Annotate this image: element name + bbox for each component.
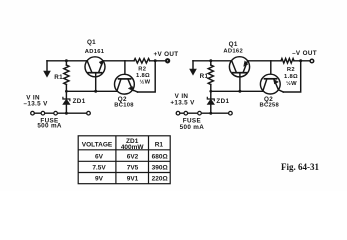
svg-text:9V: 9V	[95, 175, 104, 182]
zener diode ZD1 (left)	[63, 97, 70, 113]
node junction R1 top (right)	[209, 59, 212, 62]
transistor Q1 (right, AD162)	[229, 57, 249, 77]
terminal bottom rail end (left)	[87, 111, 91, 115]
node junction R1 top (left)	[65, 59, 68, 62]
svg-text:6V: 6V	[95, 153, 104, 160]
wire bottom rail right circuit	[180, 112, 229, 114]
svg-text:1.8Ω: 1.8Ω	[136, 73, 150, 79]
svg-text:½W: ½W	[286, 80, 297, 87]
svg-text:Q1: Q1	[87, 39, 96, 46]
wire Q2 base lead (left)	[124, 61, 126, 75]
wire mid rail left circuit	[66, 90, 118, 92]
svg-text:1.8Ω: 1.8Ω	[284, 74, 298, 80]
terminal -V OUT	[310, 59, 314, 63]
node junction +V OUT branch (left)	[154, 59, 157, 62]
wire R1 bottom to zener (right)	[210, 85, 212, 99]
svg-text:ZD1: ZD1	[73, 98, 86, 105]
svg-text:BC108: BC108	[114, 103, 134, 109]
terminal V IN (left)	[31, 111, 35, 115]
resistor R1 (left)	[64, 65, 69, 85]
wire bottom rail left circuit	[34, 112, 87, 114]
svg-text:390Ω: 390Ω	[152, 164, 168, 171]
wire top rail left circuit (segment right of R2)	[150, 60, 166, 62]
svg-text:–V OUT: –V OUT	[292, 50, 317, 57]
svg-text:AD161: AD161	[85, 49, 105, 55]
table of values (VOLTAGE / ZD1 400mW / R1)	[78, 136, 170, 184]
wire top rail left circuit (segment left of R2)	[47, 60, 134, 62]
wire Q1 base lead (left)	[95, 73, 97, 92]
svg-text:9V1: 9V1	[127, 175, 139, 182]
svg-text:7.5V: 7.5V	[92, 164, 106, 171]
svg-text:VOLTAGE: VOLTAGE	[82, 141, 113, 148]
svg-text:R1: R1	[200, 73, 209, 80]
svg-text:R1: R1	[54, 74, 63, 81]
svg-text:6V2: 6V2	[127, 153, 139, 160]
svg-text:500 mA: 500 mA	[37, 122, 62, 129]
zener diode ZD1 (right)	[207, 97, 214, 113]
ground (left, arrow)	[44, 71, 51, 77]
node junction ZD1 bottom rail (left)	[65, 112, 68, 115]
terminal V IN (right)	[176, 111, 180, 115]
ground (right, arrow)	[190, 69, 197, 75]
resistor R2 (right)	[281, 59, 294, 64]
wire top rail right circuit (segment right of R2)	[294, 60, 310, 62]
svg-text:ZD1: ZD1	[216, 98, 229, 105]
svg-text:500 mA: 500 mA	[180, 124, 205, 131]
svg-text:680Ω: 680Ω	[152, 153, 168, 160]
node junction R1/ZD1 mid (left)	[65, 90, 68, 93]
svg-text:+13.5 V: +13.5 V	[170, 100, 195, 107]
svg-text:7V5: 7V5	[127, 164, 139, 171]
wire R1 bottom to zener (left)	[65, 85, 67, 99]
svg-text:Q1: Q1	[229, 41, 238, 48]
node junction -V OUT branch (right)	[299, 59, 302, 62]
svg-text:R2: R2	[287, 67, 295, 73]
svg-text:+V OUT: +V OUT	[153, 51, 178, 58]
svg-text:AD162: AD162	[223, 48, 243, 54]
node junction Q1 base / mid rail (right)	[238, 90, 241, 93]
wire R1/ZD1 branch upper (left)	[65, 61, 67, 65]
svg-text:400mW: 400mW	[121, 144, 145, 151]
wire -V OUT branch vertical (right)	[283, 61, 300, 92]
svg-text:R2: R2	[138, 66, 146, 72]
wire top rail right circuit (segment left of R2)	[193, 60, 281, 62]
node junction Q1 base / mid rail (left)	[94, 90, 97, 93]
transistor Q1 (left, AD161)	[85, 57, 105, 77]
resistor R2 (left)	[134, 59, 150, 64]
fuse (left, 500 mA)	[41, 111, 57, 115]
transistor Q2 (right, BC258)	[260, 74, 280, 94]
wire +V OUT branch vertical (left)	[138, 61, 156, 92]
wire R1/ZD1 branch upper (right)	[210, 61, 212, 65]
wire mid rail right circuit	[211, 90, 264, 92]
wire Q2 emitter lead (left)	[133, 90, 138, 92]
wire ground leg right	[192, 61, 194, 70]
svg-text:Fig. 64-31: Fig. 64-31	[281, 162, 319, 172]
svg-text:–13.5 V: –13.5 V	[24, 100, 49, 107]
terminal +V OUT	[166, 59, 169, 62]
wire ground leg left	[46, 61, 48, 72]
node junction R1/ZD1 mid (right)	[209, 90, 212, 93]
wire Q1 base lead (right)	[239, 73, 241, 92]
wire Q2 emitter lead (right)	[278, 90, 283, 92]
resistor R1 (right)	[208, 65, 213, 85]
svg-text:R1: R1	[155, 141, 164, 148]
wire Q2 base lead (right)	[270, 61, 272, 75]
terminal bottom rail end (right)	[229, 111, 233, 115]
svg-text:BC258: BC258	[260, 103, 280, 109]
node junction ZD1 bottom rail (right)	[209, 112, 212, 115]
svg-text:½W: ½W	[140, 79, 151, 86]
svg-text:220Ω: 220Ω	[152, 175, 168, 182]
fuse (right, 500 mA)	[184, 111, 201, 115]
transistor Q2 (left, BC108)	[115, 74, 135, 94]
